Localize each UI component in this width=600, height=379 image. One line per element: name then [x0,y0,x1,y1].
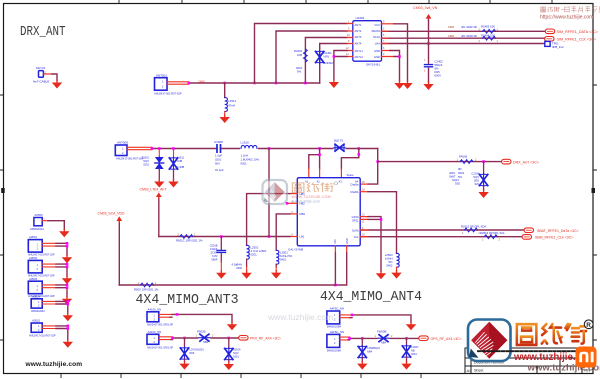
net GPS_RF_AX4 oval [419,336,428,341]
svg-text:NeT-CABLE: NeT-CABLE [33,80,49,84]
svg-text:SIM_RFFE1_DATA <3C>: SIM_RFFE1_DATA <3C> [557,30,598,34]
svg-text:CM03_3v8_VN: CM03_3v8_VN [413,6,438,10]
wire ANT4-A to ground [340,315,352,318]
svg-text:GND: GND [374,55,380,59]
svg-text:10R: 10R [297,53,302,57]
wire A0504 to ground [42,301,56,304]
ESD diode D2104 shunt [483,162,485,174]
ground L2502 [241,271,251,279]
svg-text:3PB_lncc: 3PB_lncc [552,45,564,49]
svg-text:CLk: CLk [354,235,359,239]
svg-text:L1510: L1510 [241,141,250,145]
connector A0503 [28,281,42,294]
svg-text:A4: A4 [355,180,359,184]
wire ANT4-B rail [340,337,350,340]
wire LNA net [382,43,545,45]
wire to IC1 pin1 [255,24,348,84]
svg-text:ANU2417-001-R07-02P: ANU2417-001-R07-02P [116,157,144,161]
svg-text:L0YGN0201: L0YGN0201 [190,348,205,352]
svg-text:S0D: S0D [455,182,460,186]
power net CM03_LTE4_AFT [158,198,160,237]
svg-text:A2104: A2104 [233,348,241,352]
connector ANT3-A [147,312,159,322]
wire IC2 right pin ChaNb to L2503 [360,191,368,193]
svg-text:uPL SD03 3R: uPL SD03 3R [461,34,477,38]
svg-text:SBM_RFFE1_CLk <3C>: SBM_RFFE1_CLk <3C> [535,236,573,240]
svg-text:ANT501: ANT501 [156,74,167,78]
ground A0510 [63,340,73,348]
wire A0502 to ground [42,264,56,267]
svg-text:L2N0BQ21: L2N0BQ21 [367,346,380,350]
svg-text:0401: 0401 [280,258,287,262]
svg-text:4X4_MIMO_ANT4: 4X4_MIMO_ANT4 [320,290,422,305]
ground IC1 left [329,80,339,88]
svg-text:SIM2: SIM2 [448,25,455,29]
svg-text:R2513 0R DPL SCL: R2513 0R DPL SCL [480,231,505,235]
capacitor C2402 [425,65,433,67]
inductor L2503 [397,253,400,267]
op IC U2402 RF switch top [346,16,385,67]
ground L2503 [391,271,401,279]
filter FL2501 series on rail [334,144,346,152]
left border zone ticks [0,95,4,340]
svg-text:47nH: 47nH [228,104,235,108]
svg-text:50V: 50V [215,162,220,166]
net DRX_ANT oval [502,159,511,164]
connector A0500 [34,218,42,226]
ground D1501 [154,180,164,188]
wire rail junction to IC2 pin4 [268,149,270,237]
svg-text:ANU2417-001-R07-02P: ANU2417-001-R07-02P [154,92,182,96]
ESD diode ANT3 shunt1 [184,338,186,348]
ground ANT4 shunt2 [401,362,411,370]
connector ANT4-B [327,334,340,347]
svg-text:VCC: VCC [374,23,380,27]
svg-text:ANT3: ANT3 [355,35,362,39]
svg-text:R2512 0R DPL SDA: R2512 0R DPL SDA [461,224,486,228]
resistor R2404 [483,36,496,40]
svg-text:ANT506: ANT506 [117,141,128,145]
logo registered mark [584,320,593,329]
svg-text:0402: 0402 [386,264,393,268]
ground ANT4 shunt1 [357,362,367,370]
net SBAT_RFFE1_DATA oval [524,228,533,233]
net SBM_RFFE1_CLK oval [522,235,531,240]
wire IC2 GP10 GP11 pins to ground [360,217,368,220]
svg-text:923: 923 [475,182,480,186]
svg-text:R2403 10K: R2403 10K [481,25,495,29]
power net CM03_SCA_VDD [118,222,120,286]
svg-text:VIO: VIO [333,240,337,244]
resistor R2502 [465,228,478,232]
wire IC1 GND pins right [382,51,395,57]
svg-text:SIM2: SIM2 [448,34,455,38]
svg-text:ANTL2: ANTL2 [355,55,364,59]
watermark red diamond [265,182,285,202]
svg-text:C1508: C1508 [214,140,223,144]
ground ANT3-A [227,322,237,330]
ground GP pins [376,271,386,279]
ground ANT3 shunt1 [179,362,189,370]
svg-text:SIM_RFFE1_CLK <3C>: SIM_RFFE1_CLK <3C> [557,37,597,41]
wire ANT501 pin stubs [167,82,189,84]
svg-text:L1511: L1511 [177,156,185,160]
svg-text:SbNT: SbNT [449,175,456,179]
ESD diode ANT4 shunt2 [406,338,408,345]
resistor R501C [180,235,193,239]
ground C501B [216,271,226,279]
svg-text:PRX_RF_AX4 <3C>: PRX_RF_AX4 <3C> [250,336,281,340]
svg-text:L2N27: L2N27 [411,345,419,349]
capacitor C1508 series on rail [217,145,221,152]
svg-text:R501C 10R 0201 1%: R501C 10R 0201 1% [176,239,203,243]
inductor L1510 series on rail [240,146,258,150]
ESD diode ANT3 shunt2 [228,338,230,348]
svg-text:dAPL: dAPL [449,171,456,175]
resistor R506 [460,160,473,164]
top border zone ticks [119,0,552,4]
svg-text:C501B: C501B [210,244,218,248]
wire SDATA net [382,30,546,32]
svg-text:CM03_SCA_VDD: CM03_SCA_VDD [98,212,125,216]
connector ANT506 [115,141,144,161]
svg-text:NB4: NB4 [381,340,387,344]
svg-text:A4100_NN: A4100_NN [148,308,162,312]
ground A0501 [62,255,72,263]
svg-text:GP10: GP10 [352,215,359,219]
pin stubs IC1 left [347,24,353,44]
svg-text:A0502: A0502 [29,256,38,260]
inductor L1511 [225,98,228,112]
svg-text:4X4_MIMO_ANT3: 4X4_MIMO_ANT3 [136,293,239,308]
resistor R500 [141,283,154,287]
svg-text:GPS_RF_AX4 <3C>: GPS_RF_AX4 <3C> [431,337,462,341]
svg-text:LB1: LB1 [300,235,305,239]
svg-text:0201: 0201 [411,352,417,356]
ESD diode D1502 shunt [173,149,175,158]
svg-text:1NB: 1NB [177,159,182,163]
svg-text:0201: 0201 [143,163,149,167]
svg-text:A0510: A0510 [32,319,41,323]
wire to IC1 pin3 via R2401 [305,38,347,84]
label cluster right of IC2 [449,171,460,186]
svg-text:A1: A1 [305,180,309,184]
svg-text:0201: 0201 [241,162,248,166]
logo icon rounded square [468,320,511,362]
wire to IC1 pin2 [276,31,347,83]
wire CM03_SCA_VDD rail [119,284,335,286]
svg-text:±0.1pF: ±0.1pF [215,168,224,172]
filter FW50B series [378,334,390,342]
wire IC2 left pin1 [290,193,297,195]
svg-text:NQ21: NQ21 [452,178,459,182]
Mi logo [576,347,597,368]
svg-text:CM03_LTE4_AFT: CM03_LTE4_AFT [140,188,167,192]
svg-text:SBAT_RFFE1_DaTa <3C>: SBAT_RFFE1_DaTa <3C> [537,229,579,233]
svg-text:KEY21: KEY21 [36,66,46,70]
inductor L2502 [247,245,250,259]
svg-text:ANU2417-001-R07-02P: ANU2417-001-R07-02P [29,334,56,337]
capacitor C501B shunt [220,237,222,250]
svg-text:A0501: A0501 [29,235,38,239]
svg-text:GP11: GP11 [352,219,359,223]
svg-text:ANT4: ANT4 [355,42,362,46]
wire ANT506 pin stubs [127,147,152,149]
wire A0501 to ground [42,243,56,246]
wire KEY21 to ground [43,73,52,75]
ground ANT3 shunt2 [224,362,234,370]
wire IC2 left pin3 to L2501 [290,213,297,215]
svg-text:0201: 0201 [251,253,258,257]
ground A0503 [62,297,72,305]
svg-text:SDATA: SDATA [371,29,380,33]
connector ANT501 [154,74,182,96]
svg-text:ANTL1: ANTL1 [355,49,364,53]
svg-text:630V: 630V [435,74,442,78]
wire A0500 to ground [42,220,48,222]
svg-text:5CXR: 5CXR [211,251,218,255]
connector KEY21 [33,66,49,84]
testpoint pad TP2401 [545,41,550,46]
inductor L2501 [276,250,279,264]
ground A0500 [59,229,69,237]
svg-text:SCLK: SCLK [373,35,380,39]
bottom right logo block [468,320,600,374]
svg-text:0201: 0201 [233,355,239,359]
ground C2402 [423,82,433,90]
resistor R2401 [304,49,308,62]
svg-text:PA506: PA506 [459,154,468,158]
wire to IC2 top pin1 [309,155,320,169]
svg-text:www.tuzhijie.com: www.tuzhijie.com [267,312,333,322]
svg-text:U2402: U2402 [356,16,365,20]
wire SCLK net [382,37,545,39]
ground ANT4-A [406,322,416,330]
net PRX_RF_AX4 oval [239,336,248,341]
svg-text:A5U2417-001-1R01-5P: A5U2417-001-1R01-5P [147,324,173,327]
svg-text:ChaNb: ChaNb [350,190,359,194]
svg-text:www.tuzhijie.com: www.tuzhijie.com [292,200,320,204]
wire IC2 left pin2 stub [287,202,297,204]
svg-text:uPL SD02 3R: uPL SD02 3R [461,25,477,29]
svg-text:FW50B: FW50B [377,330,386,334]
watermark center logo [263,180,338,204]
left border mid marker [1,188,4,193]
ground D2104 [478,190,488,198]
title block table bottom right [465,348,593,374]
svg-text:080P: 080P [211,258,217,262]
svg-text:LNA: LNA [375,42,380,46]
svg-text:www.tuzhijie.com: www.tuzhijie.com [25,361,83,368]
svg-text:DRX_AnT <3C>: DRX_AnT <3C> [513,160,539,164]
ground D1502 [168,180,178,188]
wire main DRX rail y83 [189,82,320,84]
svg-text:A0500A0A4: A0500A0A4 [30,227,44,231]
watermark icon rounded square [263,180,288,204]
svg-text:B4N0U20B4: B4N0U20B4 [327,349,342,352]
connector ANT4-A [327,311,340,324]
svg-text:SKY19-B1: SKY19-B1 [366,63,380,67]
resistor R2403 [483,29,496,33]
svg-text:DRX_ANT: DRX_ANT [20,25,66,40]
connector A0502 [28,260,42,273]
ground L1511 [220,115,230,123]
svg-text:R: R [586,322,591,329]
logo red diamond [471,322,507,359]
svg-text:R500 10R 0201 1%: R500 10R 0201 1% [134,287,159,291]
svg-text:A4100_NN: A4100_NN [148,330,162,334]
wire rail corner down to DRX_ANT branch [368,149,378,185]
ground A0502 [62,276,72,284]
wire SBAT_RFFE1_DATA net [360,229,524,231]
svg-text:ANT2: ANT2 [355,29,362,33]
net SIM_RFFE1_CLK [545,37,554,42]
wire mid antenna rail y148.5 [152,148,378,150]
varistor D1501 shunt [158,149,160,158]
svg-text:6.8V: 6.8V [212,254,218,258]
right border zone ticks [593,85,597,340]
svg-text:A4F5C_NN: A4F5C_NN [330,307,344,311]
svg-text:GND: GND [374,49,380,53]
svg-text:A4F5C_NN: A4F5C_NN [330,330,344,334]
wire DRX_ANT branch [378,161,502,163]
svg-text:NB2: NB2 [203,340,209,344]
svg-text:A5U2417-001-1R01-5P: A5U2417-001-1R01-5P [147,346,173,349]
svg-text:DaTa: DaTa [352,228,359,232]
wire to IC2 top pin3 [341,149,358,169]
svg-text:A0500: A0500 [35,213,44,217]
op IC U2501 antenna tuner [288,173,365,252]
pin stubs IC1 pins 5-6 left to ground [347,51,353,57]
ground L2501 [271,271,281,279]
bottom border zone ticks [61,374,421,379]
top right red slogan [540,7,599,21]
svg-text:NQV: NQV [143,159,149,163]
svg-text:GAU 5YM8: GAU 5YM8 [288,248,304,252]
svg-text:4.2dB4%: 4.2dB4% [231,263,242,267]
svg-text:SOD923: SOD923 [324,61,335,65]
wire A0510 to ground [42,326,56,329]
wire SBM_RFFE1_CLK net [360,236,523,238]
svg-text:Spare: Spare [347,173,355,177]
svg-text:NB: NB [411,349,415,353]
svg-text:A0500AN64: A0500AN64 [31,310,45,313]
svg-text:A2: A2 [317,180,321,184]
svg-text:R502B: R502B [197,329,206,333]
svg-text:NSV: NSV [324,55,330,59]
svg-text:Sheet: Sheet [474,369,483,373]
svg-text:5%: 5% [297,70,302,74]
svg-text:S0D: S0D [474,179,479,183]
svg-text:NQV: NQV [473,175,479,179]
right border mid marker [592,188,596,193]
svg-text:A0504: A0504 [32,294,41,298]
wire A0503 to ground [42,285,56,288]
watermark chinese chars [292,183,333,193]
filter R502B series [198,334,210,342]
wire stub down to L1511 [224,83,226,98]
wire IC2 left pin4 long net [290,236,297,238]
svg-text:https://www.tuzhijie.com: https://www.tuzhijie.com [540,15,593,21]
connector A0504 [31,299,42,308]
svg-text:100pF: 100pF [210,247,218,251]
resistor R2503 [484,235,497,239]
svg-text:MB1: MB1 [300,212,306,216]
svg-text:R06: R06 [190,351,195,355]
connector A0501 [28,240,42,253]
svg-text:A3: A3 [339,180,343,184]
connector A0510 [31,323,42,332]
ground KEY21 [52,81,62,89]
wire ANT3-A to ground [159,314,172,317]
wire ANT3-B rail [159,337,173,340]
svg-text:Z1501: Z1501 [142,156,150,160]
svg-text:NQV: NQV [233,351,239,355]
wire rail down to IC2 pin top2 [319,149,321,169]
svg-text:A4: A4 [467,368,473,373]
svg-text:BLE F1: BLE F1 [334,139,344,143]
ground A0504 [63,313,73,321]
svg-text:0.4NB: 0.4NB [177,165,184,169]
title block dotted row [478,350,586,352]
wire IC1 VCC pin to ground right [382,23,395,25]
svg-text:B4N0U20B4: B4N0U20B4 [327,326,342,329]
svg-text:L1511: L1511 [228,99,236,103]
svg-text:ANT1: ANT1 [355,23,362,27]
svg-text:R2404 10K: R2404 10K [481,33,495,37]
svg-text:C2104: C2104 [471,172,479,176]
svg-text:0402: 0402 [236,266,242,270]
svg-text:NB4: NB4 [367,350,373,354]
wire IC2 bottom pins to VDD rail [335,246,346,253]
svg-text:GND: GND [345,238,349,244]
net SIM_RFFE1_DATA [545,29,554,34]
svg-text:WWW.TUZHIJIE.COM: WWW.TUZHIJIE.COM [292,195,331,199]
svg-text:A0503: A0503 [29,277,38,281]
connector ANT3-B [147,334,159,344]
ESD diode D2401 [316,51,324,64]
ESD diode ANT4 shunt1 [361,338,363,346]
logo chinese chars [517,324,586,345]
wire to IC1 pin4 via D2401 [320,44,347,84]
